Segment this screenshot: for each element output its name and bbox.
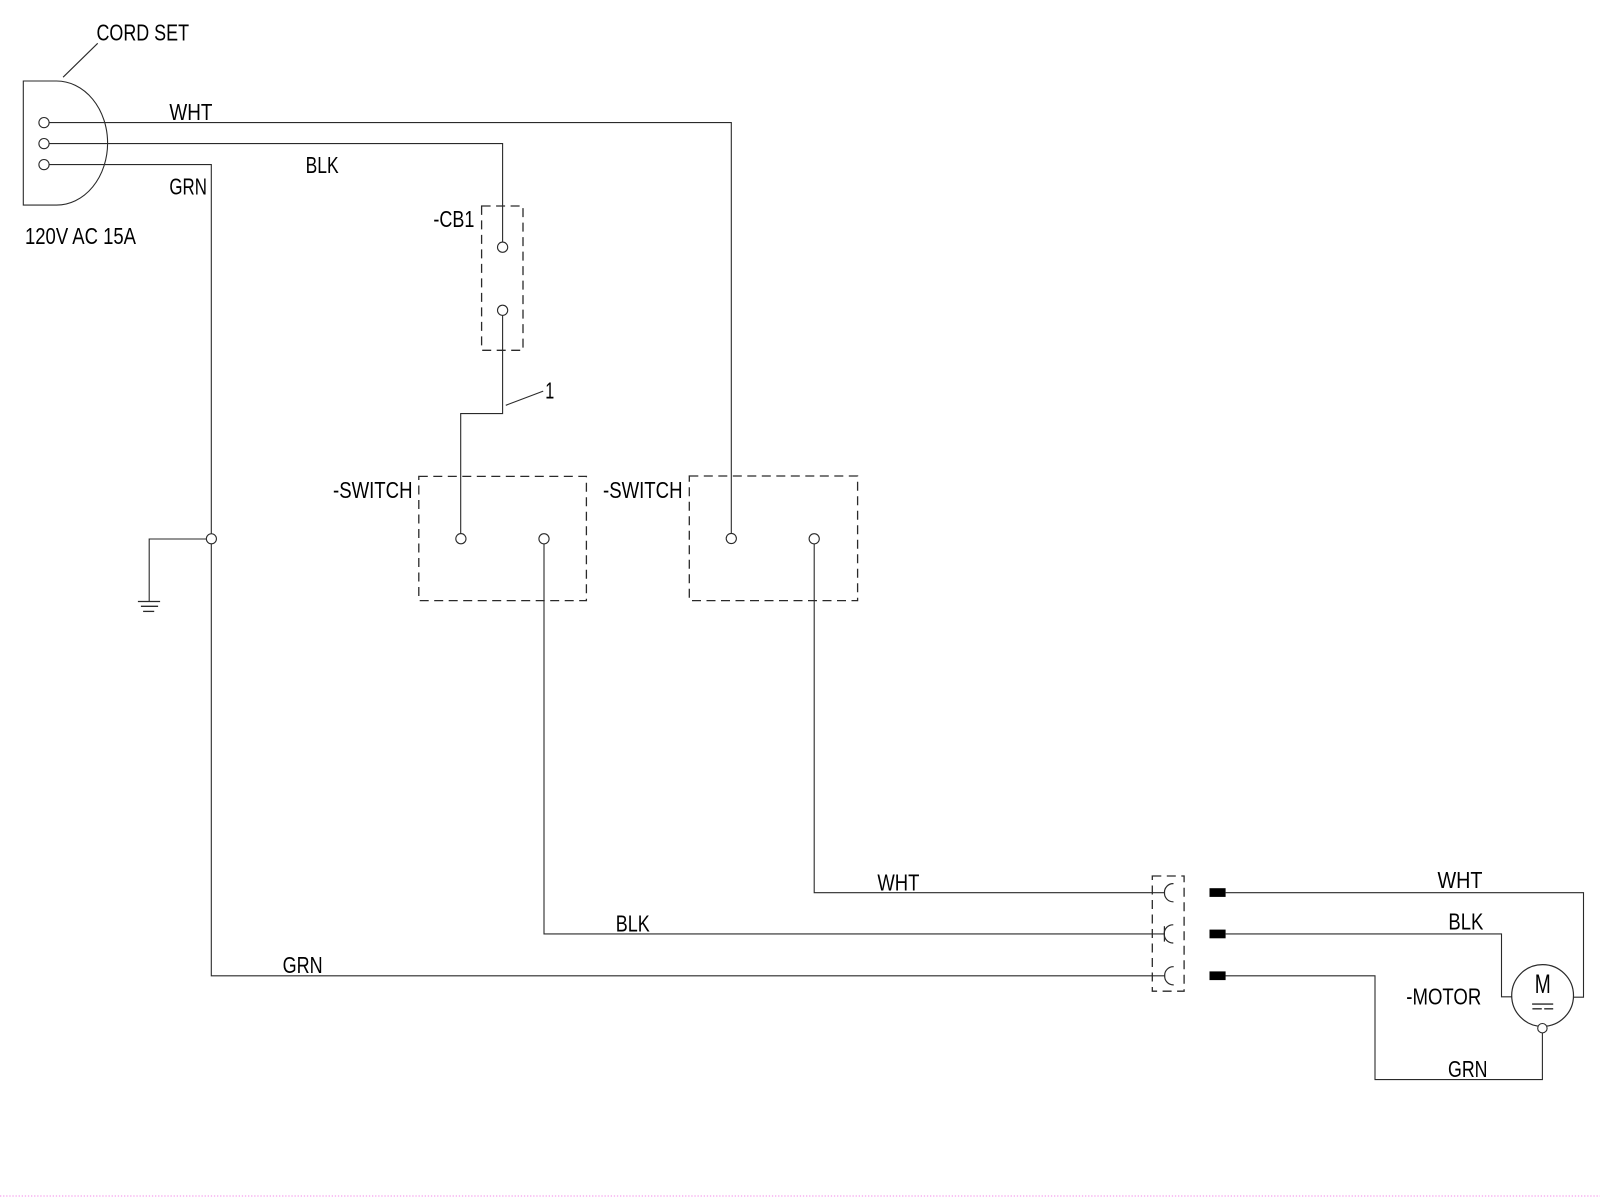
wire WHT pin1 to corner <box>49 123 731 534</box>
connector J1 dashed box <box>1152 876 1184 991</box>
switch S1 dashed box <box>419 476 587 600</box>
junction node on GRN wire <box>206 534 216 544</box>
connector male pin 3 <box>1210 971 1226 980</box>
circuit breaker CB1 dashed box <box>482 206 523 350</box>
leader line to wire label 1 <box>506 391 543 405</box>
svg-text:1: 1 <box>545 378 554 404</box>
switch S2 terminal 1 <box>726 533 736 543</box>
svg-text:BLK: BLK <box>616 911 651 937</box>
wire GRN junction branch to ground <box>149 539 206 601</box>
motor DC symbol solid line <box>1532 1003 1553 1005</box>
svg-text:WHT: WHT <box>877 870 919 896</box>
connector male pin 2 <box>1210 930 1226 939</box>
svg-text:WHT: WHT <box>1438 867 1483 893</box>
wire BLK switch1 to connector <box>544 544 1164 934</box>
svg-text:WHT: WHT <box>169 99 212 125</box>
wire WHT switch2 to connector <box>814 544 1164 893</box>
svg-text:GRN: GRN <box>283 952 323 978</box>
wire GRN pin3 to junction <box>49 165 211 534</box>
switch S1 terminal 1 <box>456 534 466 544</box>
ground symbol <box>138 602 160 612</box>
motor ground terminal circle <box>1538 1023 1547 1032</box>
motor DC symbol dashed line <box>1532 1008 1553 1010</box>
switch S1 terminal 2 <box>539 534 549 544</box>
CB1 terminal 2 <box>498 305 508 315</box>
leader line to CORD SET label <box>63 43 98 77</box>
wire CB1 bottom jog to switch1 <box>461 315 503 533</box>
svg-text:CORD SET: CORD SET <box>97 20 190 46</box>
connector female contact 2 <box>1164 925 1173 943</box>
connector female contact 1 <box>1164 884 1173 902</box>
cord set plug P1 body <box>23 81 107 205</box>
svg-text:BLK: BLK <box>306 152 339 178</box>
connector female contact 3 <box>1165 967 1174 985</box>
svg-text:M: M <box>1535 969 1551 999</box>
wire BLK pin2 to motor left <box>1226 934 1512 997</box>
wire GRN pin3 to motor bottom <box>1225 976 1542 1080</box>
wire GRN junction down to bottom run <box>211 544 1165 976</box>
svg-text:120V AC 15A: 120V AC 15A <box>25 223 137 249</box>
svg-text:-SWITCH: -SWITCH <box>333 477 413 503</box>
svg-text:-SWITCH: -SWITCH <box>603 477 683 503</box>
wire WHT pin1 to motor right <box>1226 893 1584 998</box>
svg-text:GRN: GRN <box>169 173 207 199</box>
svg-text:-CB1: -CB1 <box>433 206 474 232</box>
connector contact 2 bar <box>1163 926 1165 941</box>
CB1 terminal 1 <box>498 242 508 252</box>
cord set pin 1 (WHT) <box>39 118 49 128</box>
connector male pin 1 <box>1210 888 1226 897</box>
page border dotted pink <box>0 1195 1600 1197</box>
cord set pin 3 (GRN) <box>39 160 49 170</box>
wire BLK pin2 to CB1 top <box>49 144 503 243</box>
cord set pin 2 (BLK) <box>39 139 49 149</box>
svg-text:-MOTOR: -MOTOR <box>1406 984 1481 1010</box>
svg-text:GRN: GRN <box>1448 1056 1488 1082</box>
switch S2 terminal 2 <box>809 534 819 544</box>
svg-text:BLK: BLK <box>1448 909 1484 935</box>
motor M1 body <box>1512 965 1574 1027</box>
switch S2 dashed box <box>689 476 857 601</box>
